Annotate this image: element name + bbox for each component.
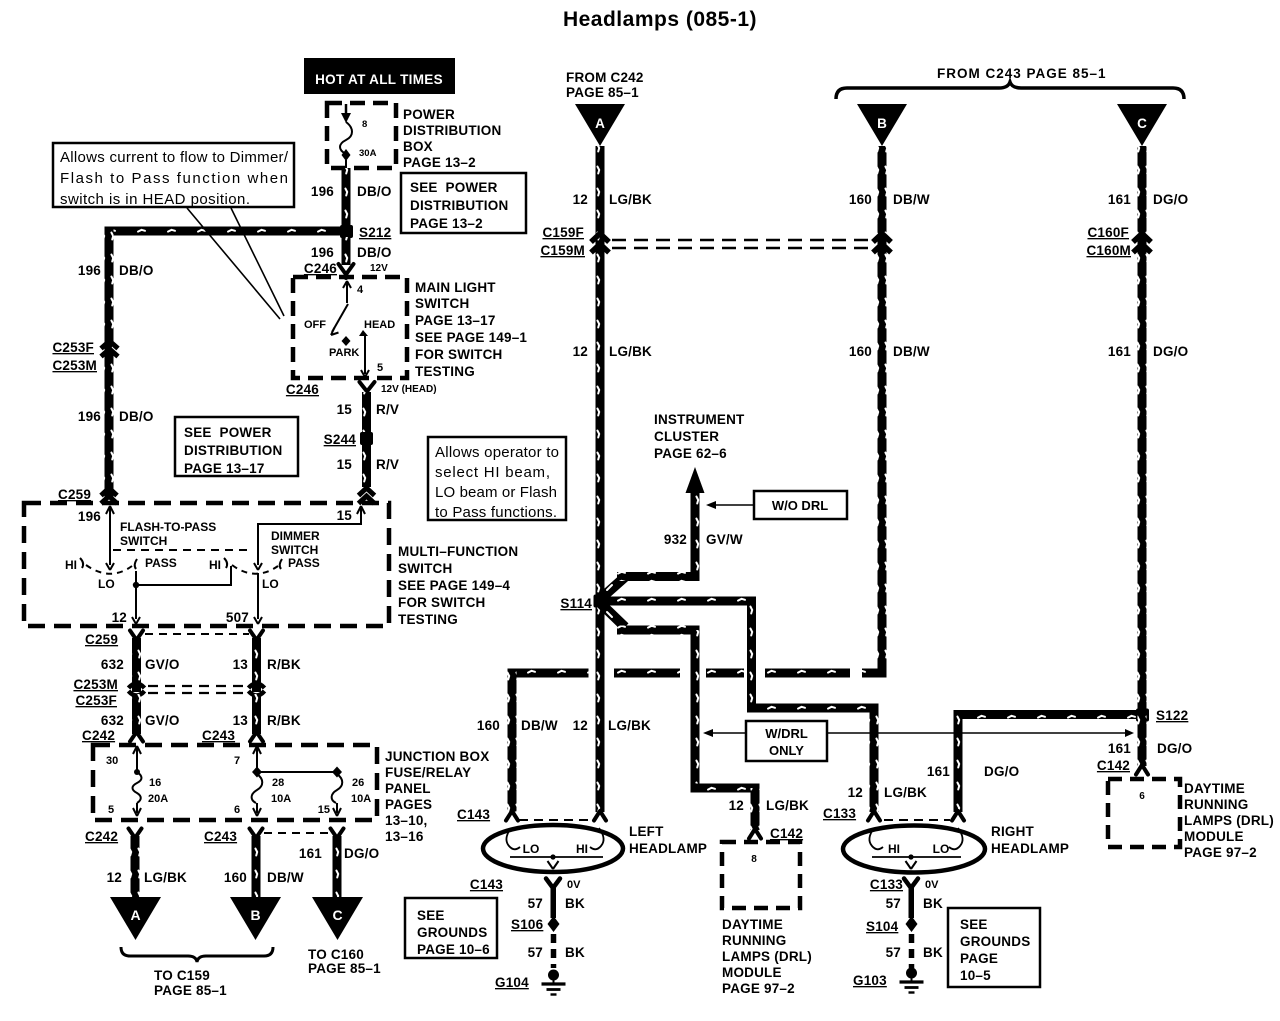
label 12 LG/BK at headlamp: [573, 718, 651, 733]
svg-text:15: 15: [337, 457, 353, 472]
svg-text:BK: BK: [923, 896, 943, 911]
switch 2 HI contact: [209, 558, 227, 572]
connector C160F C160M: [1086, 225, 1151, 258]
svg-text:DAYTIME: DAYTIME: [722, 917, 783, 932]
main light switch box: [293, 277, 407, 378]
svg-text:DG/O: DG/O: [1157, 741, 1192, 756]
switch 1 HI contact: [65, 558, 83, 572]
svg-text:LO: LO: [98, 577, 115, 591]
wire 57 BK left: [551, 886, 557, 918]
svg-text:196: 196: [78, 409, 101, 424]
svg-text:12: 12: [573, 718, 588, 733]
svg-text:B: B: [877, 116, 887, 131]
svg-text:C: C: [332, 907, 342, 923]
dashed link C243 to C wire: [264, 832, 328, 834]
svg-text:DG/O: DG/O: [984, 764, 1019, 779]
connector C253F C253M left: [52, 340, 118, 373]
note see power distribution page 13-17: [175, 417, 298, 476]
svg-text:BK: BK: [923, 945, 943, 960]
svg-text:C142: C142: [770, 826, 803, 841]
splice S106: [511, 916, 560, 932]
svg-text:ONLY: ONLY: [769, 743, 804, 758]
svg-text:161: 161: [299, 846, 322, 861]
brace to C159: [121, 947, 273, 962]
wire 57 BK dashed right: [909, 934, 915, 968]
label 15 R/V upper: [337, 402, 400, 417]
svg-text:DIMMER: DIMMER: [271, 529, 320, 543]
label 160 DB/W: [224, 870, 304, 885]
splice S244: [324, 432, 373, 447]
svg-text:160: 160: [224, 870, 247, 885]
label 932 GV/W: [664, 532, 743, 547]
svg-text:DB/W: DB/W: [267, 870, 304, 885]
label 57 BK: [528, 896, 585, 911]
label 13 R/BK lower: [233, 713, 301, 728]
svg-text:C259: C259: [58, 487, 91, 502]
label right headlamp: [991, 824, 1069, 856]
label main light switch: [415, 280, 527, 379]
svg-text:DB/O: DB/O: [357, 245, 392, 260]
label 12 LG/BK mid: [573, 344, 652, 359]
pin 15 dimmer: [254, 506, 365, 570]
label 160 DB/W at headlamp: [477, 718, 558, 733]
svg-text:DISTRIBUTION: DISTRIBUTION: [184, 443, 282, 458]
svg-text:DB/W: DB/W: [521, 718, 558, 733]
label 57 BK right: [886, 896, 943, 911]
svg-text:BOX: BOX: [403, 139, 433, 154]
svg-text:5: 5: [108, 804, 114, 816]
connector C143 left headlamp LO fork: [506, 811, 518, 821]
svg-text:C242: C242: [85, 829, 118, 844]
svg-text:30A: 30A: [359, 148, 377, 159]
svg-text:12: 12: [573, 192, 588, 207]
svg-text:R/V: R/V: [376, 457, 399, 472]
svg-text:12: 12: [848, 785, 863, 800]
svg-text:196: 196: [311, 245, 334, 260]
svg-text:RIGHT: RIGHT: [991, 824, 1035, 839]
label instrument cluster: [654, 412, 745, 461]
svg-text:7: 7: [234, 755, 240, 767]
svg-text:10–5: 10–5: [960, 968, 991, 983]
svg-text:160: 160: [849, 192, 872, 207]
svg-text:R/BK: R/BK: [267, 713, 301, 728]
svg-text:HI: HI: [576, 842, 588, 856]
svg-text:SEE: SEE: [417, 908, 445, 923]
svg-text:160: 160: [849, 344, 872, 359]
splice S122: [1136, 708, 1188, 723]
svg-text:DB/O: DB/O: [357, 184, 392, 199]
junction box: [93, 745, 377, 820]
triangle B top: [857, 104, 907, 146]
svg-text:C159F: C159F: [542, 225, 584, 240]
svg-text:Allows current to flow to Dimm: Allows current to flow to Dimmer/: [60, 149, 289, 166]
svg-text:A: A: [595, 116, 605, 131]
svg-text:FLASH-TO-PASS: FLASH-TO-PASS: [120, 520, 216, 534]
label 632 GV/O lower: [101, 713, 180, 728]
svg-text:30: 30: [106, 755, 118, 767]
svg-text:G104: G104: [495, 975, 529, 990]
fuse 30A: [340, 104, 377, 168]
brace from C243: [836, 82, 1184, 99]
wire S122 to C142: [1138, 714, 1147, 766]
svg-text:161: 161: [1108, 741, 1131, 756]
svg-text:PAGE 13–17: PAGE 13–17: [415, 313, 496, 328]
wire 160 DB/W B vertical: [878, 146, 887, 677]
svg-text:LG/BK: LG/BK: [608, 718, 651, 733]
svg-text:12: 12: [729, 798, 744, 813]
connector C259 bottom right: [250, 631, 263, 641]
svg-text:GV/O: GV/O: [145, 713, 180, 728]
svg-text:G103: G103: [853, 973, 887, 988]
note allows operator: [428, 437, 566, 521]
wire 196 DB/O left vertical: [105, 227, 114, 498]
connector C159F C159M: [540, 225, 609, 258]
connector C142 right fork: [1097, 758, 1148, 775]
svg-text:S122: S122: [1156, 708, 1188, 723]
svg-text:Flash to Pass function when: Flash to Pass function when: [60, 170, 288, 187]
svg-text:LG/BK: LG/BK: [609, 344, 652, 359]
svg-text:196: 196: [78, 263, 101, 278]
connector C wire bottom: [331, 829, 344, 839]
pin 12 output: [112, 585, 140, 625]
svg-text:DB/O: DB/O: [119, 409, 154, 424]
connector C259 left half: [58, 487, 117, 504]
wire 12 LG/BK to A: [131, 836, 140, 902]
note w/o drl: [706, 491, 847, 519]
svg-text:HI: HI: [888, 842, 900, 856]
svg-text:PAGE 13–2: PAGE 13–2: [410, 216, 483, 231]
triangle A top: [575, 104, 625, 146]
svg-text:161: 161: [927, 764, 950, 779]
svg-text:15: 15: [337, 508, 353, 523]
svg-text:C143: C143: [470, 877, 503, 892]
svg-text:DISTRIBUTION: DISTRIBUTION: [403, 123, 501, 138]
label daytime running lamps right: [1184, 781, 1274, 860]
svg-text:SEE: SEE: [960, 917, 988, 932]
svg-text:DAYTIME: DAYTIME: [1184, 781, 1245, 796]
svg-text:SEE PAGE 149–1: SEE PAGE 149–1: [415, 330, 527, 345]
svg-text:PAGE 97–2: PAGE 97–2: [1184, 845, 1257, 860]
wire 632 GV/O lower: [132, 694, 141, 734]
wire branch DRL left module: [598, 601, 760, 830]
connector C246 top: [304, 261, 354, 278]
label 160 DB/W mid: [849, 344, 930, 359]
connector C242 top: [82, 728, 143, 743]
connector C242 bottom: [85, 829, 142, 845]
svg-text:PASS: PASS: [288, 556, 320, 570]
svg-text:FUSE/RELAY: FUSE/RELAY: [385, 765, 471, 780]
svg-text:HI: HI: [65, 558, 77, 572]
svg-text:SWITCH: SWITCH: [120, 534, 167, 548]
label flash-to-pass switch: [120, 520, 216, 548]
note see grounds page 10-6: [405, 898, 497, 958]
label 196 DB/O left upper: [78, 263, 154, 278]
right DRL module box: [1108, 779, 1180, 847]
svg-text:POWER: POWER: [403, 107, 455, 122]
label POWER DISTRIBUTION BOX PAGE 13-2: [403, 107, 501, 170]
svg-text:LG/BK: LG/BK: [144, 870, 187, 885]
wire 12 LG/BK main vertical: [596, 146, 605, 812]
svg-text:20A: 20A: [148, 793, 168, 805]
svg-text:SEE PAGE 149–4: SEE PAGE 149–4: [398, 578, 510, 593]
svg-text:C253F: C253F: [75, 693, 117, 708]
svg-text:161: 161: [1108, 192, 1131, 207]
svg-text:10A: 10A: [271, 793, 291, 805]
svg-text:GV/O: GV/O: [145, 657, 180, 672]
svg-text:C133: C133: [870, 877, 903, 892]
triangle C top: [1117, 104, 1167, 146]
svg-text:57: 57: [528, 945, 543, 960]
svg-text:LG/BK: LG/BK: [609, 192, 652, 207]
svg-text:C142: C142: [1097, 758, 1130, 773]
splice S212: [340, 225, 391, 240]
svg-text:15: 15: [337, 402, 353, 417]
wire branch to instrument cluster: [598, 467, 705, 601]
hot at all times label: [304, 58, 455, 94]
svg-text:LG/BK: LG/BK: [884, 785, 927, 800]
connector C143 left headlamp HI fork: [594, 811, 606, 821]
switch 2 PASS contact: [280, 556, 320, 570]
svg-text:select HI beam,: select HI beam,: [435, 464, 550, 481]
power distribution box: [327, 103, 396, 168]
svg-text:LAMPS (DRL): LAMPS (DRL): [722, 949, 812, 964]
splice S104: [866, 916, 918, 934]
svg-text:C253M: C253M: [73, 677, 118, 692]
label TO C159 PAGE 85-1: [154, 968, 227, 998]
svg-text:JUNCTION BOX: JUNCTION BOX: [385, 749, 489, 764]
svg-text:W/DRL: W/DRL: [765, 726, 808, 741]
label 196 DB/O below S212: [311, 245, 392, 260]
label 161 DG/O mid: [1108, 344, 1188, 359]
svg-text:SWITCH: SWITCH: [271, 543, 318, 557]
svg-text:15: 15: [318, 804, 330, 816]
svg-text:C160F: C160F: [1087, 225, 1129, 240]
label 196 DB/O left lower: [78, 409, 154, 424]
connector C133 right headlamp LO fork: [952, 811, 964, 821]
svg-text:196: 196: [311, 184, 334, 199]
svg-text:932: 932: [664, 532, 687, 547]
svg-text:TESTING: TESTING: [398, 612, 458, 627]
svg-text:632: 632: [101, 713, 124, 728]
label 161 DG/O at headlamp: [927, 764, 1019, 779]
dashed link C259: [145, 633, 249, 635]
svg-text:12: 12: [112, 610, 127, 625]
svg-text:196: 196: [78, 509, 101, 524]
svg-text:PASS: PASS: [145, 556, 177, 570]
svg-text:PAGE 85–1: PAGE 85–1: [154, 983, 227, 998]
svg-text:RUNNING: RUNNING: [1184, 797, 1248, 812]
pin 507 output: [226, 573, 262, 625]
svg-text:SEE POWER: SEE POWER: [410, 180, 498, 195]
connector C133 right headlamp HI fork: [868, 811, 880, 821]
wire 632 GV/O upper: [132, 638, 141, 692]
svg-text:GROUNDS: GROUNDS: [417, 925, 487, 940]
right headlamp: [843, 820, 985, 873]
connector C246 bottom: [286, 382, 437, 397]
svg-text:DG/O: DG/O: [1153, 192, 1188, 207]
svg-text:SWITCH: SWITCH: [415, 296, 469, 311]
svg-text:DG/O: DG/O: [344, 846, 379, 861]
svg-text:57: 57: [886, 945, 901, 960]
connector C259 right half: [359, 488, 375, 504]
wire 161 DG/O C vertical: [1138, 146, 1147, 714]
svg-text:FOR SWITCH: FOR SWITCH: [415, 347, 503, 362]
wire S212 to left: [105, 227, 347, 236]
svg-text:C253F: C253F: [52, 340, 94, 355]
wire 13 R/BK lower: [252, 694, 261, 734]
svg-text:C246: C246: [304, 261, 337, 276]
svg-text:6: 6: [1139, 791, 1145, 802]
svg-text:MULTI–FUNCTION: MULTI–FUNCTION: [398, 544, 518, 559]
connector C243 top: [202, 728, 263, 743]
svg-text:SWITCH: SWITCH: [398, 561, 452, 576]
svg-text:PAGE 62–6: PAGE 62–6: [654, 446, 727, 461]
svg-text:C246: C246: [286, 382, 319, 397]
wire S212 to C246: [342, 237, 351, 265]
svg-text:HEADLAMP: HEADLAMP: [629, 841, 707, 856]
svg-text:PAGE 13–2: PAGE 13–2: [403, 155, 476, 170]
label 57 BK right lower: [886, 945, 943, 960]
connector C143 bottom: [470, 877, 581, 892]
wire 160 DB/W to B: [252, 836, 261, 902]
svg-text:160: 160: [477, 718, 500, 733]
label 161 DG/O: [299, 846, 379, 861]
svg-text:DG/O: DG/O: [1153, 344, 1188, 359]
svg-text:PAGE 85–1: PAGE 85–1: [566, 85, 639, 100]
svg-text:12V (HEAD): 12V (HEAD): [381, 384, 437, 395]
dashed wire 160 DB/W to left headlamp: [508, 669, 851, 678]
svg-text:13: 13: [233, 657, 249, 672]
label 161 DG/O upper: [1108, 192, 1188, 207]
label 632 GV/O upper: [101, 657, 180, 672]
svg-text:FOR SWITCH: FOR SWITCH: [398, 595, 486, 610]
svg-text:LO: LO: [523, 842, 540, 856]
svg-text:S106: S106: [511, 917, 544, 932]
svg-text:DB/W: DB/W: [893, 344, 930, 359]
svg-text:LG/BK: LG/BK: [766, 798, 809, 813]
pin 196 flash-to-pass: [78, 506, 114, 570]
svg-text:PAGE 85–1: PAGE 85–1: [308, 961, 381, 976]
svg-text:C253M: C253M: [52, 358, 97, 373]
connector C253M C253F mid: [73, 677, 264, 708]
svg-text:4: 4: [357, 284, 364, 296]
wire 161 DG/O right headlamp LO: [954, 710, 963, 812]
svg-text:DISTRIBUTION: DISTRIBUTION: [410, 198, 508, 213]
connector C243 bottom: [204, 829, 263, 845]
label FROM C242 PAGE 85-1: [566, 70, 644, 100]
svg-text:HEAD: HEAD: [364, 319, 395, 331]
fuse 28 10A pins 7 6: [234, 746, 291, 816]
internal dashed line: [113, 549, 248, 551]
svg-text:C133: C133: [823, 806, 856, 821]
label 161 DG/O at C142: [1108, 741, 1192, 756]
svg-text:HOT AT ALL TIMES: HOT AT ALL TIMES: [315, 72, 443, 87]
corner B wire to dashed run: [862, 669, 887, 678]
svg-text:R/V: R/V: [376, 402, 399, 417]
svg-text:to Pass functions.: to Pass functions.: [435, 504, 557, 521]
label TO C160 PAGE 85-1: [308, 947, 381, 976]
svg-text:HI: HI: [209, 558, 221, 572]
wire 196 DB/O fuse to S212: [342, 168, 351, 227]
svg-text:8: 8: [751, 854, 757, 865]
svg-text:C243: C243: [204, 829, 237, 844]
label multi-function switch: [398, 544, 518, 627]
svg-text:switch is in HEAD position.: switch is in HEAD position.: [60, 191, 250, 208]
label 160 DB/W upper: [849, 192, 930, 207]
line pass1 to hi2: [136, 566, 231, 585]
label 15 R/V lower: [337, 457, 400, 472]
svg-text:DB/W: DB/W: [893, 192, 930, 207]
svg-text:57: 57: [528, 896, 543, 911]
svg-text:C: C: [1137, 116, 1147, 131]
connector C142 left fork: [749, 826, 803, 841]
svg-text:BK: BK: [565, 945, 585, 960]
label 12 LG/BK upper: [573, 192, 652, 207]
triangle B bottom: [230, 897, 281, 940]
fuse link line: [252, 767, 342, 778]
svg-text:10A: 10A: [351, 793, 371, 805]
svg-text:PARK: PARK: [329, 347, 359, 359]
main light switch internals: [304, 281, 395, 377]
splice S114: [560, 595, 606, 612]
label 12 LG/BK drl: [729, 798, 809, 813]
svg-text:A: A: [130, 907, 140, 923]
svg-text:6: 6: [234, 804, 240, 816]
svg-text:LO beam or Flash: LO beam or Flash: [435, 484, 557, 501]
svg-text:C160M: C160M: [1086, 243, 1131, 258]
svg-text:LO: LO: [933, 842, 950, 856]
svg-text:OFF: OFF: [304, 319, 326, 331]
wire S122 horizontal: [958, 710, 1140, 719]
ground G104: [495, 970, 566, 995]
label junction box fuse relay panel: [385, 749, 489, 844]
svg-text:BK: BK: [565, 896, 585, 911]
svg-text:PAGE 13–17: PAGE 13–17: [184, 461, 265, 476]
label left headlamp: [629, 824, 707, 856]
note allows current to flow: [53, 143, 294, 208]
wire 160 DB/W left headlamp LO vertical: [508, 669, 517, 812]
svg-text:S212: S212: [359, 225, 391, 240]
svg-text:GV/W: GV/W: [706, 532, 743, 547]
wire 57 BK right: [909, 886, 915, 918]
svg-text:28: 28: [272, 777, 284, 789]
svg-text:26: 26: [352, 777, 364, 789]
triangle C bottom: [312, 897, 363, 940]
label 57 BK lower: [528, 945, 585, 960]
svg-text:632: 632: [101, 657, 124, 672]
svg-text:PAGE 97–2: PAGE 97–2: [722, 981, 795, 996]
svg-text:C243: C243: [202, 728, 235, 743]
svg-text:C242: C242: [82, 728, 115, 743]
svg-text:R/BK: R/BK: [267, 657, 301, 672]
svg-text:13–10,: 13–10,: [385, 813, 428, 828]
svg-text:161: 161: [1108, 344, 1131, 359]
connector B C159: [873, 234, 891, 253]
svg-text:Headlamps (085-1): Headlamps (085-1): [563, 8, 757, 31]
svg-text:Allows operator to: Allows operator to: [435, 444, 559, 461]
switch 1 LO contact arc: [86, 565, 132, 591]
svg-text:57: 57: [886, 896, 901, 911]
svg-text:MODULE: MODULE: [722, 965, 782, 980]
note pointer lines: [187, 208, 284, 319]
note see grounds page 10-5: [948, 908, 1040, 987]
wire 57 BK dashed left: [551, 934, 557, 968]
connector C259 bottom left: [85, 631, 143, 648]
fuse 26 10A pin 15: [318, 774, 371, 816]
double dashed C253 link: [148, 686, 245, 693]
svg-text:PAGE 10–6: PAGE 10–6: [417, 942, 490, 957]
svg-text:C143: C143: [457, 807, 490, 822]
